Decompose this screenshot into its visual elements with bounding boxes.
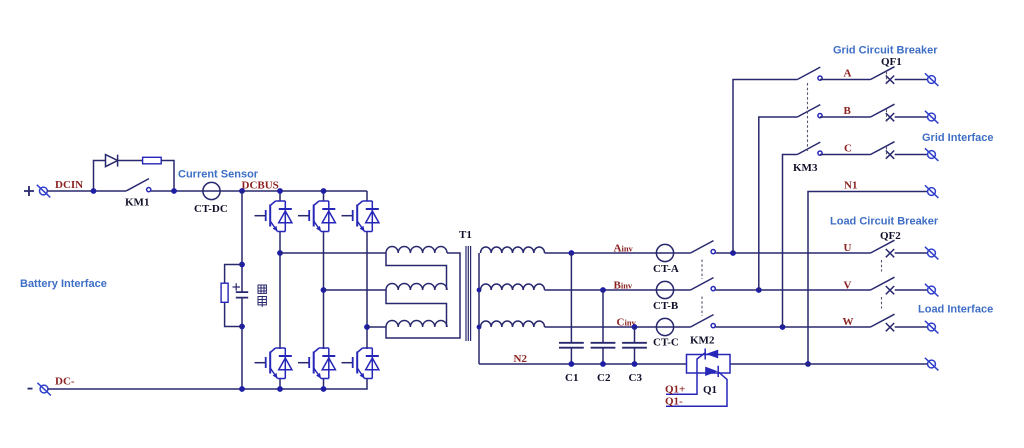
node junction N2-C2 [600,361,606,367]
wire DC- rail [48,378,367,389]
wire riser N [808,192,928,365]
wire KM3C out [820,154,871,156]
svg-text:C1: C1 [565,372,578,384]
transistor IGBT top2 [298,201,335,232]
node junction C1 tap [569,250,575,256]
svg-text:Ainv: Ainv [614,243,634,255]
wire C1 branch [570,253,572,364]
switch KM3 pole B [797,105,822,118]
wire inverter leg1 [279,191,281,389]
wire phase C to transformer [367,326,386,328]
capacitor electrolytic plates [236,292,248,298]
wire riser C [783,155,798,328]
node junction bottom rail leg2 [321,386,327,392]
node DC+ terminal [37,185,51,198]
resistor R2 [221,283,228,302]
wire KM3A out [820,79,871,81]
svg-text:N1: N1 [844,180,857,192]
breaker QF2 pole W [871,314,928,331]
wire KM2 link dashed [701,260,703,317]
svg-text:N2: N2 [514,353,528,365]
inductor primary winding A [386,247,447,253]
resistor R1 [143,157,162,164]
breaker QF1 pole C [871,142,928,159]
wire inverter phase C out [545,326,691,328]
node junction phase C leg [364,324,370,330]
svg-text:DCIN: DCIN [55,179,83,191]
wire KM3 link dashed [807,83,809,151]
svg-text:QF2: QF2 [880,230,901,242]
node junction bottom rail leg1 [277,386,283,392]
node junction riser A [730,250,736,256]
node junction elec top [239,262,245,268]
wire C2 branch [602,290,604,364]
transistor IGBT bottom1 [255,348,292,379]
inductor primary winding B [386,284,447,291]
current sensor CT-DC [203,182,220,199]
transistor IGBT bottom3 [342,348,379,379]
wire QF1 link dashed [886,72,888,159]
breaker QF1 pole B [871,104,928,121]
wire KM2A out [716,252,871,254]
thyristor module Q1 box [687,355,731,374]
label plus of capacitor [233,283,241,290]
node terminal N1 [925,185,939,198]
transistor IGBT top1 [255,201,292,232]
wire balancing resistor branch [225,265,242,327]
breaker QF2 pole U [871,240,928,257]
wire inverter phase A out [545,252,691,254]
wire phase A to transformer [280,252,386,254]
wire delta link 1 [386,253,447,290]
svg-text:T1: T1 [459,229,472,241]
inductor secondary winding B [481,284,545,290]
node junction DCBUS [239,188,245,194]
wire riser B [759,117,798,290]
svg-text:C: C [844,143,852,155]
wire Q1 top gate [666,353,706,395]
wire phase B to transformer [324,289,387,291]
node junction sec C [477,325,482,330]
node junction sec B [477,288,482,293]
breaker QF1 pole A [871,67,928,84]
wire inverter leg3 [366,191,368,349]
label dianjie vertical glyphs [258,285,266,307]
wire Q1 bottom gate [666,372,727,406]
thyristor Q1 bottom SCR [717,366,719,377]
transformer T1 core [466,246,471,341]
wire inverter leg2 [323,191,325,389]
transistor IGBT top3 [342,201,379,232]
svg-text:A: A [844,68,852,80]
inductor secondary winding C [481,321,545,327]
svg-text:CT-C: CT-C [653,337,679,349]
wire KM2C out [716,326,871,328]
wire diode to resistor [118,160,143,162]
node terminal W [925,321,939,334]
current sensor CT-A [656,244,673,261]
diode D1 [106,155,118,167]
capacitor C1 [559,343,584,348]
wire delta link 2 [386,290,447,327]
node DC- terminal [37,383,51,396]
switch KM3 pole A [797,67,822,80]
transistor IGBT bottom2 [298,348,335,379]
node junction top rail leg2 [321,188,327,194]
wire KM2B out [716,289,871,291]
node junction phase A leg [277,250,283,256]
capacitor C3 [622,343,647,348]
wire bypass branch right [161,161,174,192]
wire inverter phase B out [545,289,691,291]
svg-text:Grid Circuit Breaker: Grid Circuit Breaker [833,45,938,57]
svg-text:Battery Interface: Battery Interface [20,278,107,290]
inductor primary winding C [386,321,447,328]
node junction top rail leg1 [277,188,283,194]
svg-text:DC-: DC- [55,376,75,388]
node terminal N2 [925,358,939,371]
svg-text:V: V [844,280,852,292]
node junction KM1 out [171,188,177,194]
capacitor C2 [591,343,616,348]
node junction riser B [756,287,762,293]
svg-text:CT-A: CT-A [653,263,679,275]
svg-text:B: B [844,105,852,117]
svg-text:C2: C2 [597,372,611,384]
svg-text:CT-B: CT-B [653,300,679,312]
node junction elec bottom [239,324,245,330]
node junction phase B leg [321,287,327,293]
svg-text:Binv: Binv [614,280,633,292]
wire DC+ rail [47,190,367,192]
node junction N2-C1 [569,361,575,367]
breaker QF2 pole V [871,277,928,294]
svg-text:U: U [844,242,852,254]
wire KM3B out [820,116,871,118]
current sensor CT-B [656,281,673,298]
svg-text:CT-DC: CT-DC [194,203,228,215]
svg-text:Load Interface: Load Interface [918,304,993,316]
node junction N2-C3 [632,361,638,367]
thyristor Q1 top SCR [704,349,706,360]
wire DC bus vertical [241,191,243,389]
svg-text:Q1: Q1 [703,384,717,396]
inductor secondary winding A [481,247,545,253]
svg-text:Q1+: Q1+ [665,383,685,395]
node junction DC- bus [239,386,245,392]
current sensor CT-C [656,318,673,335]
svg-text:W: W [843,316,854,328]
node terminal B [925,111,939,124]
label minus [28,388,33,390]
switch KM3 pole C [797,142,822,155]
switch KM2 pole A [691,241,716,254]
svg-text:C3: C3 [629,372,643,384]
svg-text:KM1: KM1 [125,197,149,209]
node junction DCIN [91,188,97,194]
wire secondary neutral vertical [478,253,480,364]
wire bypass branch left [94,161,106,192]
switch KM2 pole C [691,315,716,328]
svg-text:DCBUS: DCBUS [242,180,279,192]
node junction C2 tap [600,287,606,293]
svg-text:QF1: QF1 [881,56,902,68]
node terminal C [925,148,939,161]
node junction C3 tap [632,324,638,330]
wire QF2 link dashed [881,260,883,309]
node terminal U [925,247,939,260]
wire N2 out [730,363,928,365]
wire delta link 3 [386,253,460,338]
switch KM2 pole B [691,278,716,291]
node junction riser C [780,324,786,330]
wire riser A [733,80,797,254]
label + [24,186,34,196]
node terminal V [925,284,939,297]
node terminal A [925,73,939,86]
svg-text:Q1-: Q1- [665,395,683,407]
node junction N2 riser [805,361,811,367]
svg-text:Load Circuit Breaker: Load Circuit Breaker [830,216,939,228]
wire C3 branch [634,327,636,364]
svg-text:KM2: KM2 [690,335,715,347]
svg-text:KM3: KM3 [793,162,818,174]
switch KM1 [126,179,151,192]
svg-text:Grid Interface: Grid Interface [922,132,994,144]
wire N2 line [479,363,687,365]
